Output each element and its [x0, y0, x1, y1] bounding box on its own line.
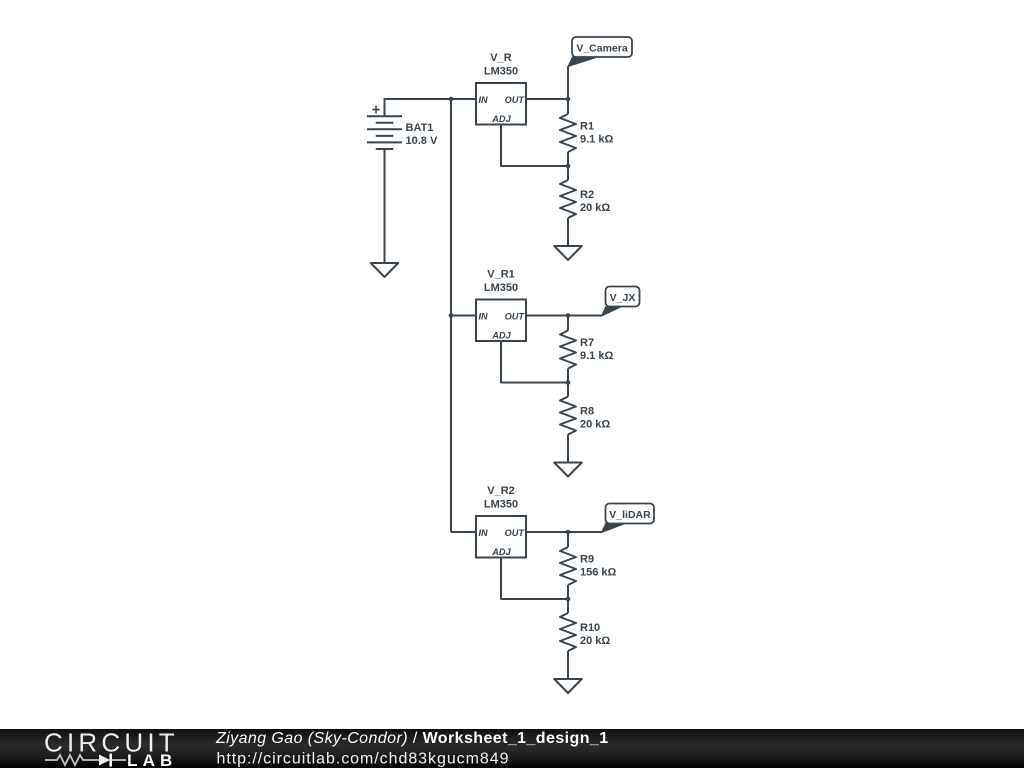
svg-text:IN: IN: [479, 311, 489, 321]
svg-text:20 kΩ: 20 kΩ: [580, 635, 610, 647]
svg-text:LM350: LM350: [484, 66, 518, 78]
svg-text:V_R1: V_R1: [487, 269, 515, 281]
label R9 value: [580, 554, 617, 579]
label BAT1 value 10.8 V: [406, 122, 438, 147]
ground (V_R1 divider): [554, 463, 582, 477]
svg-text:R2: R2: [580, 189, 594, 201]
svg-text:V_R: V_R: [490, 52, 511, 64]
label R7 value: [580, 337, 613, 362]
wire: OUT pin to node: [526, 98, 568, 100]
svg-text:LAB: LAB: [127, 751, 178, 768]
resistor R8 20 kΩ: [560, 383, 576, 463]
svg-text:V_R2: V_R2: [487, 485, 515, 497]
svg-text:IN: IN: [479, 95, 489, 105]
svg-text:156 kΩ: 156 kΩ: [580, 567, 617, 579]
wire: bus to IN pin (V_R2): [451, 531, 476, 533]
ground (V_R2 divider): [554, 679, 582, 693]
regulator U3 V_R2 LM350: [476, 516, 526, 558]
ground (battery): [371, 263, 399, 277]
wire: bus to IN pin (V_R1): [451, 315, 476, 317]
svg-text:IN: IN: [479, 528, 489, 538]
wire: bus to IN pin (V_R): [451, 98, 476, 100]
node: OUT junction V_R1: [566, 313, 571, 318]
node: divider junction R1/R2: [566, 164, 571, 169]
svg-text:R9: R9: [580, 554, 594, 566]
svg-text:V_JX: V_JX: [610, 292, 636, 304]
svg-text:20 kΩ: 20 kΩ: [580, 202, 610, 214]
svg-text:LM350: LM350: [484, 282, 518, 294]
svg-text:V_Camera: V_Camera: [576, 43, 628, 55]
wire: OUT pin to node: [526, 315, 568, 317]
svg-text:9.1 kΩ: 9.1 kΩ: [580, 134, 613, 146]
battery BAT1 10.8 V: [367, 106, 402, 149]
node: divider junction R7/R8: [566, 380, 571, 385]
resistor R10 20 kΩ: [560, 599, 576, 679]
net flag V_JX: [568, 287, 640, 317]
svg-text:OUT: OUT: [505, 311, 526, 321]
ground (V_R divider): [554, 246, 582, 260]
svg-text:LM350: LM350: [484, 499, 518, 511]
regulator U1 V_R LM350: [476, 83, 526, 125]
label R2 value: [580, 189, 610, 214]
svg-text:R8: R8: [580, 406, 594, 418]
svg-text:BAT1: BAT1: [406, 122, 434, 134]
label V_R1 LM350: [484, 269, 518, 295]
node: OUT junction V_R: [566, 97, 571, 102]
wire: ADJ pin down and right: [501, 341, 568, 383]
svg-text:ADJ: ADJ: [491, 331, 511, 341]
node: bus junction V_R1: [449, 313, 454, 318]
wire: ADJ pin down and right: [501, 558, 568, 600]
svg-text:R10: R10: [580, 622, 600, 634]
svg-text:Ziyang Gao (Sky-Condor) / Work: Ziyang Gao (Sky-Condor) / Worksheet_1_de…: [215, 730, 609, 747]
svg-text:OUT: OUT: [505, 95, 526, 105]
label V_R2 LM350: [484, 485, 518, 511]
resistor R7 9.1 kΩ: [560, 316, 576, 383]
resistor R9 156 kΩ: [560, 532, 576, 599]
wire: OUT pin to node: [526, 531, 568, 533]
resistor R2 20 kΩ: [560, 166, 576, 246]
label R10 value: [580, 622, 610, 647]
label R8 value: [580, 406, 610, 431]
footer bar: [0, 729, 1024, 768]
svg-text:R1: R1: [580, 121, 594, 133]
wire: battery positive to bus: [385, 99, 452, 116]
svg-text:20 kΩ: 20 kΩ: [580, 419, 610, 431]
svg-text:9.1 kΩ: 9.1 kΩ: [580, 350, 613, 362]
svg-text:ADJ: ADJ: [491, 547, 511, 557]
node: OUT junction V_R2: [566, 530, 571, 535]
resistor R1 9.1 kΩ: [560, 99, 576, 166]
wire: ADJ pin down and right: [501, 125, 568, 167]
svg-text:10.8 V: 10.8 V: [406, 135, 438, 147]
bus wire (input rail): [450, 99, 452, 532]
node: bus junction V_R: [449, 97, 454, 102]
label R1 value: [580, 121, 613, 146]
wire: battery negative down: [384, 149, 386, 263]
label V_R LM350: [484, 52, 518, 78]
net flag V_Camera: [568, 37, 632, 99]
svg-text:http://circuitlab.com/chd83kgu: http://circuitlab.com/chd83kgucm849: [217, 750, 510, 767]
svg-text:V_liDAR: V_liDAR: [609, 509, 651, 521]
svg-text:OUT: OUT: [505, 528, 526, 538]
regulator U2 V_R1 LM350: [476, 300, 526, 342]
svg-text:R7: R7: [580, 337, 594, 349]
svg-text:ADJ: ADJ: [491, 114, 511, 124]
net flag V_liDAR: [568, 504, 654, 533]
CircuitLab logo: [44, 728, 179, 768]
node: divider junction R9/R10: [566, 597, 571, 602]
